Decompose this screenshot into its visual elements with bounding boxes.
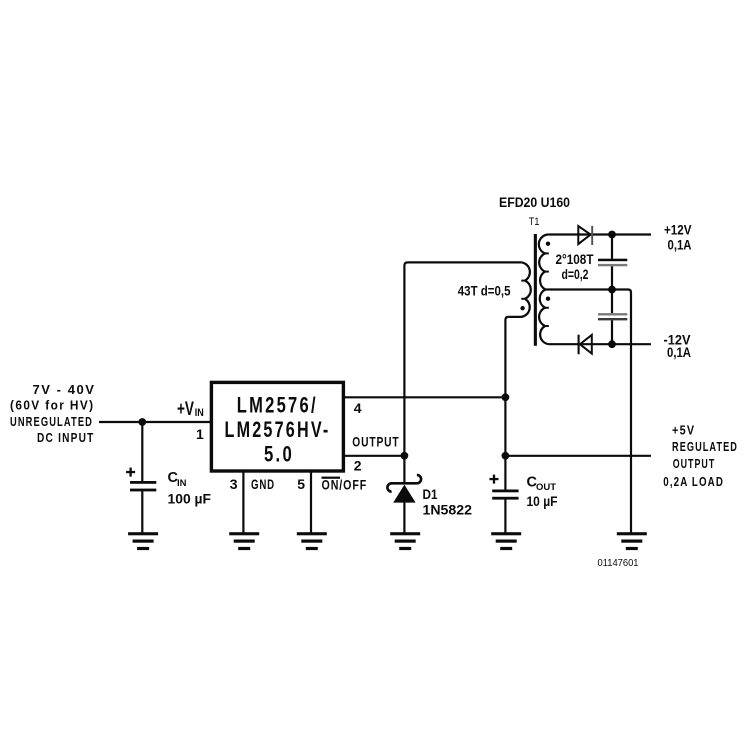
svg-text:IN: IN bbox=[195, 407, 204, 419]
svg-text:D1: D1 bbox=[423, 486, 438, 502]
svg-text:IN: IN bbox=[177, 478, 187, 489]
svg-text:LM2576HV-: LM2576HV- bbox=[225, 417, 331, 442]
svg-text:DC INPUT: DC INPUT bbox=[37, 431, 95, 445]
svg-text:0,2A LOAD: 0,2A LOAD bbox=[663, 474, 724, 489]
svg-text:LM2576/: LM2576/ bbox=[237, 393, 318, 418]
svg-text:5: 5 bbox=[297, 476, 306, 492]
svg-text:2: 2 bbox=[354, 458, 363, 474]
svg-text:(60V for HV): (60V for HV) bbox=[10, 398, 95, 412]
svg-text:T1: T1 bbox=[529, 216, 540, 228]
svg-text:OUTPUT: OUTPUT bbox=[673, 456, 716, 471]
svg-text:4: 4 bbox=[354, 400, 363, 416]
svg-text:+12V: +12V bbox=[664, 223, 692, 238]
svg-text:OUT: OUT bbox=[536, 482, 556, 493]
svg-text:1N5822: 1N5822 bbox=[423, 502, 473, 518]
svg-text:3: 3 bbox=[230, 476, 239, 492]
svg-text:43T d=0,5: 43T d=0,5 bbox=[458, 283, 511, 298]
svg-text:OUTPUT: OUTPUT bbox=[352, 433, 399, 449]
svg-text:EFD20 U160: EFD20 U160 bbox=[499, 195, 570, 210]
svg-text:d=0,2: d=0,2 bbox=[562, 267, 589, 282]
svg-text:10 µF: 10 µF bbox=[527, 493, 558, 509]
svg-text:100 µF: 100 µF bbox=[168, 491, 212, 507]
svg-text:UNREGULATED: UNREGULATED bbox=[10, 415, 93, 429]
svg-text:7V - 40V: 7V - 40V bbox=[33, 383, 96, 397]
svg-text:+5V: +5V bbox=[672, 422, 695, 437]
svg-text:5.0: 5.0 bbox=[264, 442, 294, 467]
svg-text:0,1A: 0,1A bbox=[667, 345, 691, 360]
svg-text:01147601: 01147601 bbox=[598, 558, 639, 569]
svg-text:REGULATED: REGULATED bbox=[672, 439, 738, 454]
svg-text:+V: +V bbox=[177, 399, 194, 420]
svg-text:2°108T: 2°108T bbox=[556, 252, 595, 267]
svg-text:GND: GND bbox=[251, 476, 275, 492]
svg-text:0,1A: 0,1A bbox=[668, 237, 692, 252]
svg-text:1: 1 bbox=[196, 426, 205, 442]
